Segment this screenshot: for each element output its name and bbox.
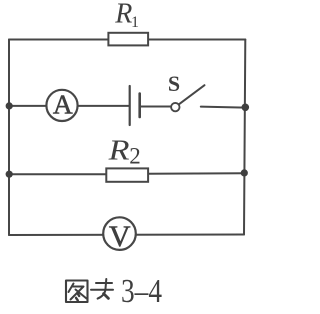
switch blade [179,85,205,104]
voltmeter V (U: meter) [103,217,136,253]
svg-text:A: A [53,88,73,119]
node junction dot left lower [6,171,13,178]
svg-text:3–4: 3–4 [121,273,162,310]
svg-text:2: 2 [129,144,141,169]
svg-text:R: R [108,134,130,166]
svg-text:1: 1 [131,14,139,31]
wire switch fixed contact [201,107,245,108]
wire middle branch left (to ammeter) [9,105,47,107]
ammeter A (U: meter) [46,88,77,121]
resistor R1 [108,33,148,46]
svg-text:V: V [109,220,131,253]
node junction dot left upper [6,102,13,109]
node junction dot right lower [241,169,248,176]
caption: hand-drawn CJK 图 [66,281,88,303]
svg-text:S: S [168,71,180,96]
wire battery to switch [140,106,171,108]
wire bottom [9,234,244,237]
wire right vertical [244,40,245,235]
caption: hand-drawn CJK 专 [91,279,113,299]
label R2 [108,134,141,169]
wire top [9,39,245,41]
wire ammeter to battery [78,105,130,107]
battery cell [130,86,140,125]
wire R2 branch right [148,172,245,175]
svg-text:R: R [114,0,132,30]
switch S [168,71,205,111]
wire left vertical [8,40,10,236]
resistor R2 [106,168,148,181]
label R1 [114,0,139,31]
node junction dot right upper [242,104,250,112]
wire R2 branch left [9,173,107,175]
